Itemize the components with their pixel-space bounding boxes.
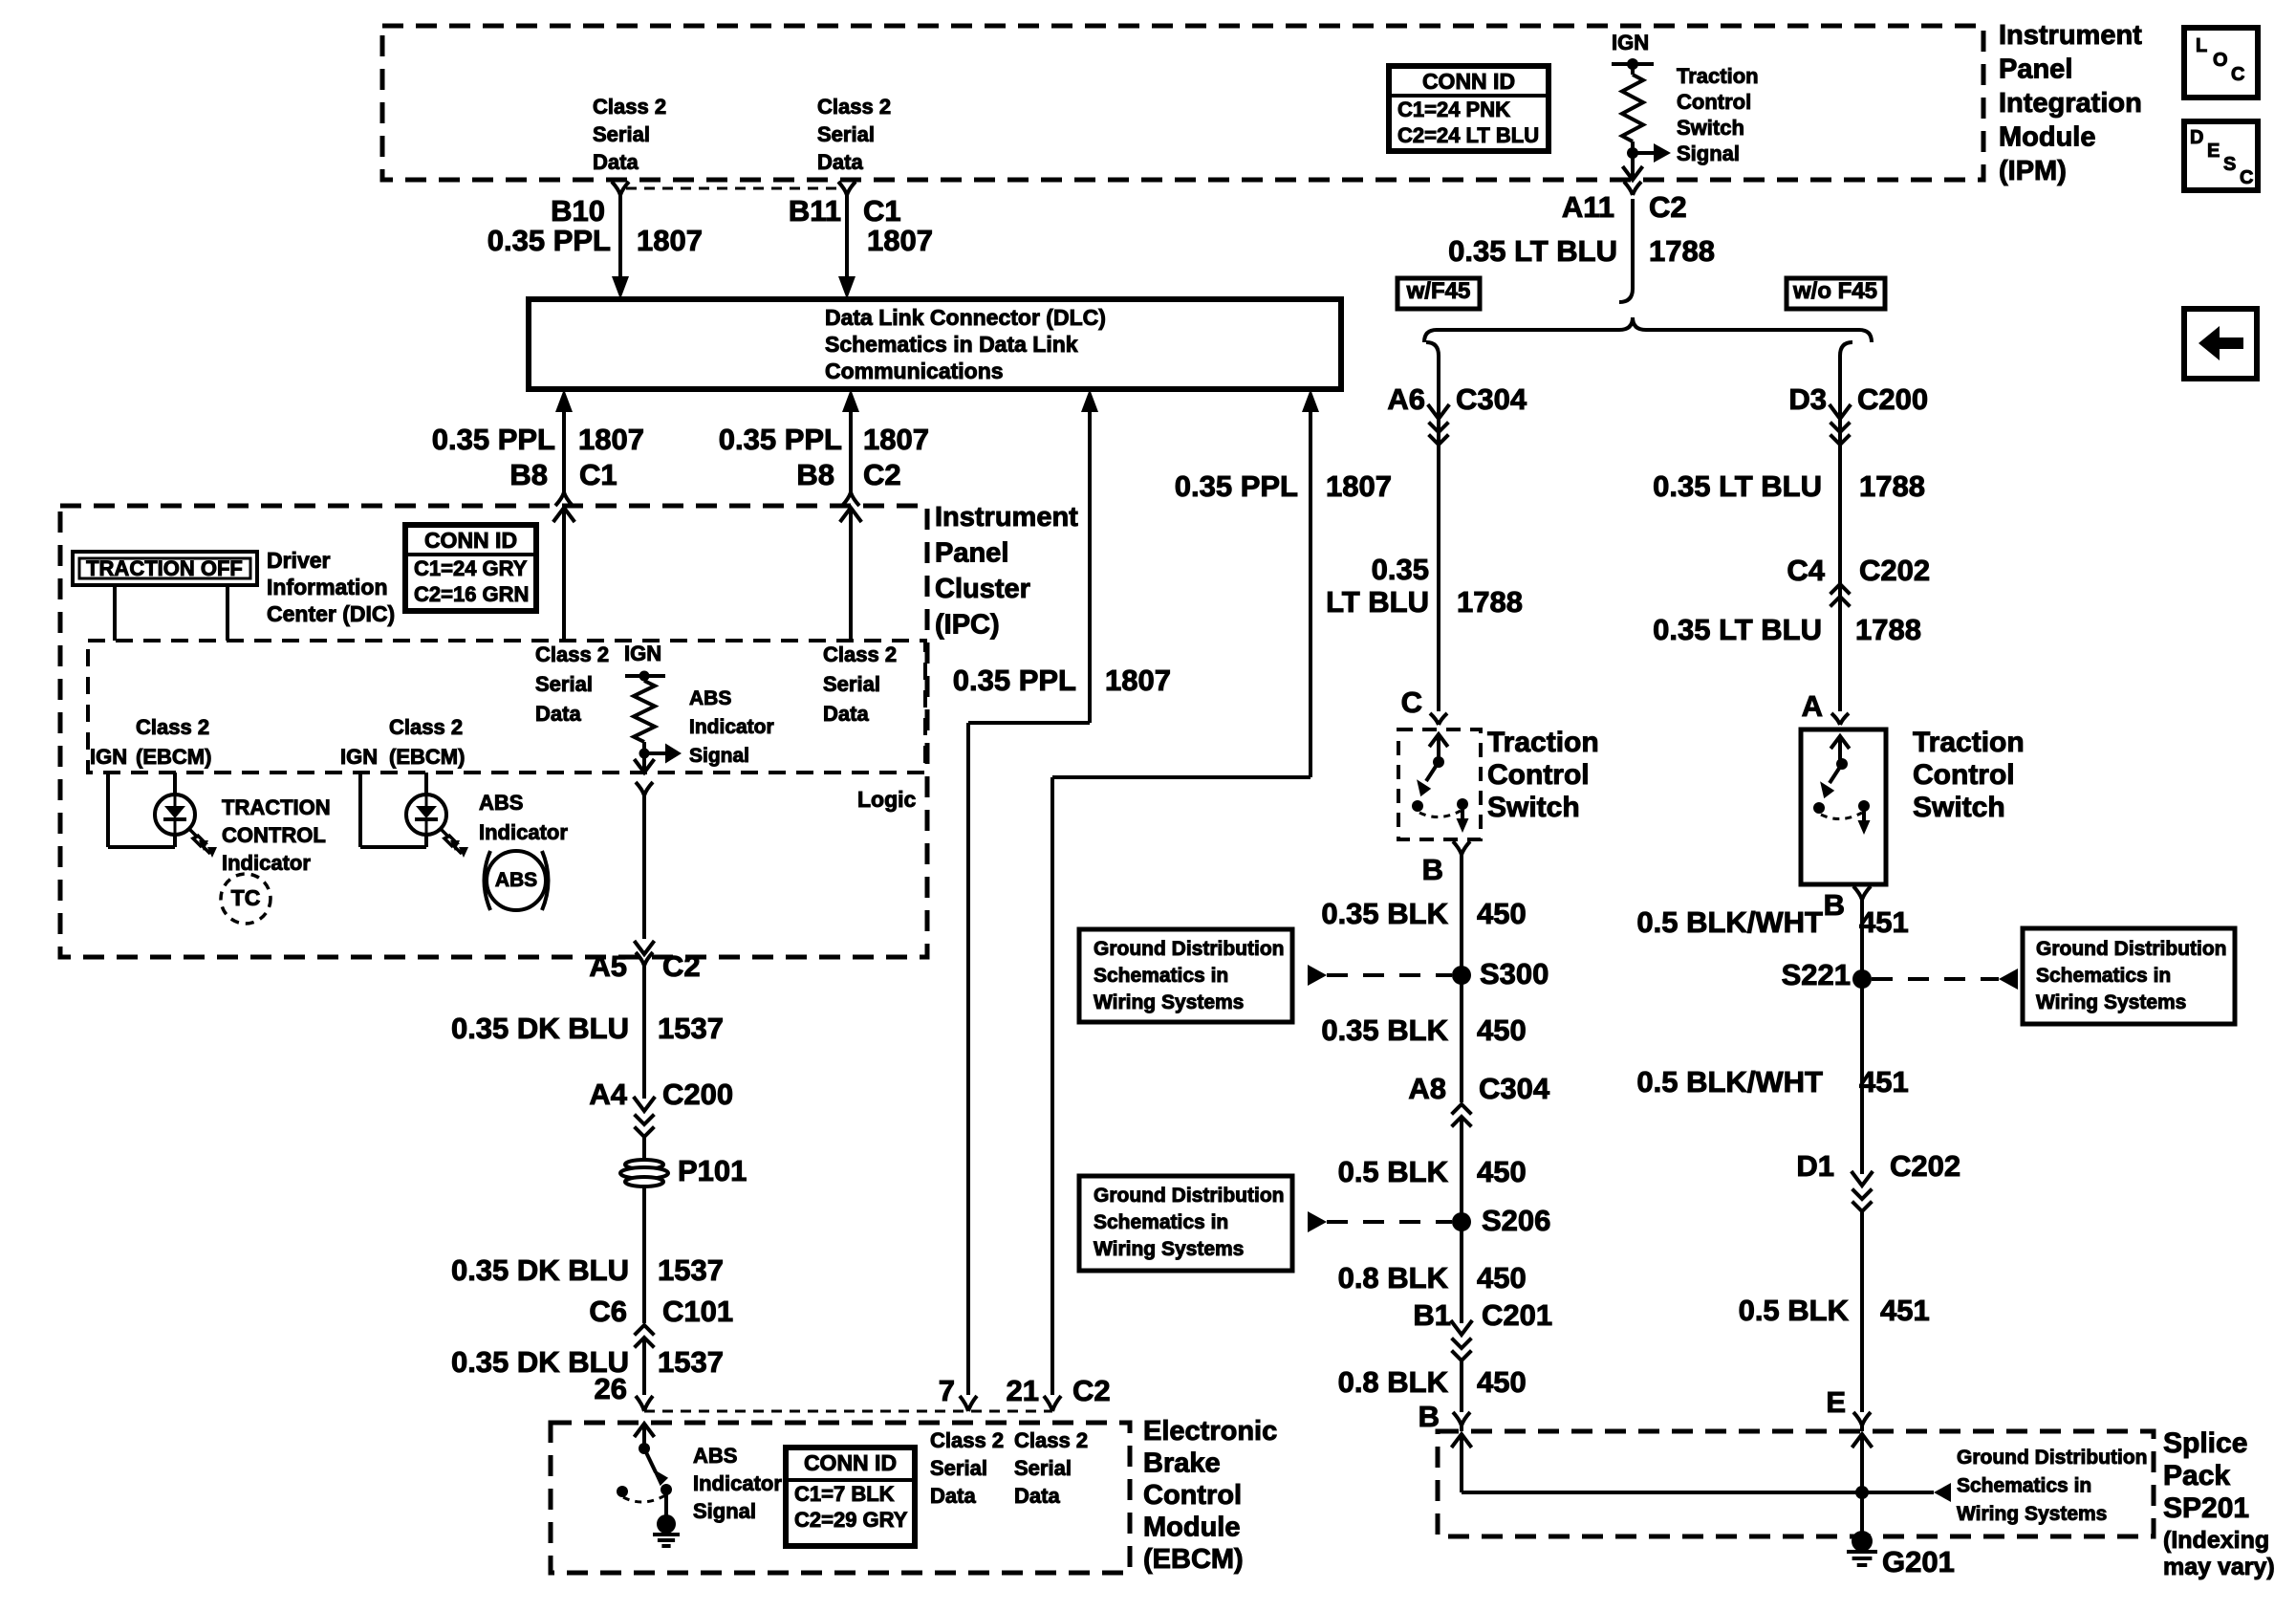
svg-text:Indicator: Indicator: [693, 1471, 782, 1495]
ground connection dot inside EBCM: [657, 1514, 676, 1534]
connector boundary dashed line between B10 and B11: [626, 187, 841, 190]
svg-text:Traction: Traction: [1913, 727, 2025, 758]
reference box Ground Distribution (S221): [2023, 928, 2235, 1024]
svg-text:Splice: Splice: [2163, 1427, 2247, 1459]
reference arrow from S221: [1999, 969, 2018, 990]
svg-text:ABS: ABS: [689, 687, 731, 709]
svg-text:C1=24 GRY: C1=24 GRY: [414, 556, 528, 580]
svg-text:E: E: [2207, 141, 2220, 162]
svg-text:S300: S300: [1480, 957, 1549, 991]
resistor traction control switch signal pull-up (IPM): [1631, 64, 1635, 75]
reference box DESC: [2184, 121, 2258, 190]
svg-text:Panel: Panel: [1999, 54, 2072, 85]
svg-text:Traction: Traction: [1487, 727, 1599, 758]
svg-text:451: 451: [1880, 1294, 1930, 1327]
svg-text:Module: Module: [1999, 122, 2096, 153]
svg-text:Data Link Connector (DLC): Data Link Connector (DLC): [825, 305, 1106, 330]
reference arrow to S300: [1308, 965, 1327, 986]
svg-text:CONN ID: CONN ID: [1422, 69, 1515, 94]
wire IGN tick (IPC): [625, 674, 665, 678]
connector fork IPM pin A11 (C2): [1624, 182, 1641, 195]
wire switch B down to S221: [1860, 900, 1864, 979]
svg-text:B: B: [1422, 853, 1443, 886]
svg-text:C1=7 BLK: C1=7 BLK: [794, 1482, 895, 1506]
svg-text:Signal: Signal: [1677, 142, 1740, 165]
svg-text:Class 2: Class 2: [389, 715, 463, 739]
svg-text:Class 2: Class 2: [593, 95, 666, 119]
svg-text:0.35 BLK: 0.35 BLK: [1321, 1013, 1448, 1047]
svg-text:P101: P101: [678, 1154, 747, 1187]
svg-text:Center (DIC): Center (DIC): [267, 601, 395, 626]
svg-text:Wiring Systems: Wiring Systems: [1957, 1503, 2107, 1525]
svg-text:(EBCM): (EBCM): [136, 745, 211, 769]
svg-text:26: 26: [595, 1372, 627, 1405]
wire ABS logic wire arrow to IPC bottom: [635, 941, 655, 954]
svg-text:Data: Data: [930, 1484, 976, 1508]
svg-text:Brake: Brake: [1143, 1448, 1221, 1479]
connector table CONN ID (IPC) C1=24 GRY / C2=16 GRN: [405, 525, 536, 611]
svg-text:A5: A5: [589, 949, 627, 983]
svg-text:1788: 1788: [1457, 585, 1523, 619]
svg-text:450: 450: [1477, 1261, 1527, 1295]
svg-text:C2: C2: [863, 458, 901, 491]
splice S300: [1452, 966, 1471, 985]
svg-text:0.35 PPL: 0.35 PPL: [719, 423, 842, 456]
svg-text:Communications: Communications: [825, 359, 1004, 383]
svg-text:C202: C202: [1890, 1149, 1960, 1183]
reference arrow SP201: [1934, 1483, 1951, 1502]
svg-text:Data: Data: [817, 150, 863, 174]
reference box LOC: [2184, 28, 2258, 98]
svg-text:C2=16 GRN: C2=16 GRN: [414, 582, 529, 606]
svg-text:1807: 1807: [637, 224, 703, 257]
connector fork EBCM pin 21: [1044, 1396, 1061, 1411]
svg-text:C2=29 GRY: C2=29 GRY: [794, 1508, 908, 1532]
variant box w/o F45: [1787, 278, 1885, 309]
svg-text:0.35 LT BLU: 0.35 LT BLU: [1653, 613, 1822, 646]
ground symbol G201: [1847, 1550, 1877, 1554]
grommet P101: [625, 1160, 663, 1169]
wire B8-C1 inside IPC: [553, 508, 575, 522]
wire SP201 left leg: [1452, 1434, 1472, 1448]
svg-text:C1: C1: [863, 194, 901, 228]
svg-text:Signal: Signal: [689, 745, 749, 767]
svg-text:E: E: [1826, 1385, 1846, 1419]
reference box Ground Distribution (S206): [1079, 1176, 1292, 1271]
switch mechanism (w/o F45): [1830, 736, 1850, 749]
svg-text:A8: A8: [1408, 1072, 1446, 1105]
wire S221 to D1: [1860, 979, 1864, 1174]
wire IGN feed tick: [1612, 62, 1654, 66]
svg-text:Driver: Driver: [267, 548, 331, 573]
svg-text:Serial: Serial: [1014, 1456, 1072, 1480]
connector hook left branch: [1426, 342, 1439, 356]
svg-text:Data: Data: [593, 150, 639, 174]
wire SP201 bus: [1462, 1491, 1934, 1494]
svg-text:1537: 1537: [658, 1345, 724, 1379]
svg-text:IGN: IGN: [1612, 31, 1649, 54]
svg-text:TC: TC: [231, 885, 261, 910]
svg-text:Serial: Serial: [823, 672, 880, 696]
svg-text:CONTROL: CONTROL: [222, 823, 326, 847]
svg-text:Data: Data: [535, 702, 581, 726]
svg-text:C: C: [2240, 167, 2253, 188]
svg-text:Serial: Serial: [593, 122, 650, 146]
svg-text:(IPM): (IPM): [1999, 156, 2067, 186]
svg-text:1537: 1537: [658, 1253, 724, 1287]
svg-text:C: C: [2231, 64, 2244, 85]
LED ABS indicator: [424, 773, 428, 795]
svg-text:Pack: Pack: [2163, 1460, 2230, 1491]
connector table CONN ID (IPM) C1=24 PNK / C2=24 LT BLU: [1389, 66, 1549, 151]
wire A5 to A4: [642, 966, 646, 1099]
svg-text:Control: Control: [1487, 759, 1590, 791]
wire B8-C2 inside IPC: [840, 508, 862, 522]
module box Instrument Panel Cluster (IPC) dashed outline: [60, 506, 927, 957]
reference box Ground Distribution (S300): [1079, 929, 1292, 1022]
connector boundary dashed line EBCM header: [644, 1410, 1052, 1413]
svg-text:B: B: [1824, 888, 1845, 922]
svg-text:Indicator: Indicator: [222, 851, 311, 875]
svg-text:Instrument: Instrument: [1999, 20, 2142, 51]
svg-text:1788: 1788: [1855, 613, 1921, 646]
svg-text:Information: Information: [267, 575, 388, 599]
connector fork switch pin A: [1831, 713, 1849, 725]
ground connection dot G201: [1852, 1531, 1873, 1552]
wire TRACTION OFF box legs: [113, 585, 117, 641]
wire C6 to EBCM pin 26: [642, 1337, 646, 1395]
svg-text:Indicator: Indicator: [689, 716, 774, 738]
switch mechanism (w/F45): [1429, 734, 1448, 747]
svg-text:Ground Distribution: Ground Distribution: [2036, 938, 2226, 960]
svg-text:C1=24 PNK: C1=24 PNK: [1397, 98, 1510, 121]
svg-text:450: 450: [1477, 1013, 1527, 1047]
svg-text:Indicator: Indicator: [479, 820, 568, 844]
svg-text:IGN: IGN: [624, 642, 661, 665]
switch ABS indicator signal driver (EBCM): [635, 1424, 655, 1437]
svg-text:Class 2: Class 2: [535, 642, 609, 666]
svg-text:C2: C2: [662, 949, 701, 983]
svg-text:D1: D1: [1796, 1149, 1834, 1183]
svg-text:S206: S206: [1482, 1204, 1550, 1237]
svg-text:C101: C101: [662, 1295, 733, 1328]
svg-text:1537: 1537: [658, 1012, 724, 1045]
wire D1 to SP201 pin E: [1860, 1211, 1864, 1412]
svg-text:0.5 BLK/WHT: 0.5 BLK/WHT: [1636, 1065, 1823, 1099]
svg-text:Switch: Switch: [1913, 792, 2005, 823]
svg-text:Wiring Systems: Wiring Systems: [1094, 991, 1244, 1013]
svg-text:A11: A11: [1562, 190, 1614, 224]
wire IPC B8-C1 to DLC (arrow up): [555, 389, 573, 412]
svg-text:A: A: [1802, 689, 1823, 723]
svg-text:D: D: [2190, 127, 2203, 148]
svg-text:B10: B10: [551, 194, 605, 228]
svg-text:Schematics in: Schematics in: [1094, 965, 1228, 987]
svg-text:Traction: Traction: [1677, 64, 1759, 88]
svg-text:Class 2: Class 2: [1014, 1428, 1088, 1452]
wire split brace (w/F45 vs w/o F45): [1424, 317, 1872, 342]
dashed reference line to S300: [1327, 973, 1452, 977]
svg-text:Cluster: Cluster: [935, 574, 1030, 604]
connector fork IPM pin C1 (B11): [838, 182, 856, 195]
svg-text:C304: C304: [1479, 1072, 1550, 1105]
connector fork IPM pin B10: [612, 182, 629, 195]
svg-text:O: O: [2213, 50, 2228, 71]
connector fork switch pin C: [1430, 713, 1447, 725]
svg-text:B1: B1: [1413, 1298, 1451, 1332]
svg-text:C4: C4: [1787, 554, 1825, 587]
symbol TC telltale dashed circle: [221, 874, 271, 924]
svg-text:Ground Distribution: Ground Distribution: [1094, 1185, 1284, 1207]
svg-text:450: 450: [1477, 1365, 1527, 1399]
svg-text:0.35 LT BLU: 0.35 LT BLU: [1448, 234, 1617, 268]
LED traction control indicator: [173, 773, 177, 795]
svg-text:0.35 PPL: 0.35 PPL: [487, 224, 611, 257]
svg-text:Schematics in Data Link: Schematics in Data Link: [825, 332, 1078, 357]
svg-text:1788: 1788: [1859, 469, 1925, 503]
svg-text:1807: 1807: [863, 423, 929, 456]
wire B1 to SP201 pin B: [1460, 1361, 1463, 1412]
wire S206 to B1: [1460, 1222, 1463, 1323]
wire right branch down to A: [1838, 356, 1842, 711]
wire ABS signal down through logic edge: [642, 753, 646, 773]
svg-text:SP201: SP201: [2163, 1492, 2249, 1524]
svg-text:C201: C201: [1482, 1298, 1552, 1332]
svg-text:0.5 BLK: 0.5 BLK: [1338, 1155, 1449, 1188]
svg-text:Switch: Switch: [1677, 116, 1744, 140]
svg-text:Instrument: Instrument: [935, 502, 1078, 533]
svg-text:B8: B8: [509, 458, 548, 491]
svg-text:B8: B8: [796, 458, 834, 491]
connector fork EBCM pin 26: [636, 1396, 653, 1411]
switch box traction control switch (w/o F45): [1801, 729, 1886, 884]
reference box back-arrow: [2184, 309, 2257, 379]
splice S206: [1452, 1212, 1471, 1231]
svg-text:LT BLU: LT BLU: [1326, 585, 1429, 619]
svg-text:0.35 LT BLU: 0.35 LT BLU: [1653, 469, 1822, 503]
svg-text:C1: C1: [579, 458, 617, 491]
svg-text:Class 2: Class 2: [817, 95, 891, 119]
svg-text:B: B: [1419, 1400, 1440, 1433]
svg-text:Serial: Serial: [930, 1456, 987, 1480]
LED emission arrows (TC): [188, 828, 202, 847]
svg-text:Wiring Systems: Wiring Systems: [2036, 991, 2186, 1013]
svg-text:0.35 DK BLU: 0.35 DK BLU: [451, 1253, 629, 1287]
svg-text:1807: 1807: [1326, 469, 1392, 503]
svg-text:w/F45: w/F45: [1406, 278, 1471, 304]
svg-text:451: 451: [1859, 905, 1909, 939]
wire SP201 right leg: [1852, 1434, 1873, 1448]
svg-text:D3: D3: [1788, 382, 1827, 416]
svg-text:1807: 1807: [1105, 664, 1171, 697]
svg-text:Switch: Switch: [1487, 792, 1580, 823]
svg-text:(IPC): (IPC): [935, 610, 1000, 641]
svg-text:Serial: Serial: [817, 122, 875, 146]
svg-text:450: 450: [1477, 1155, 1527, 1188]
wire A8 to S206: [1460, 1116, 1463, 1222]
svg-text:7: 7: [939, 1374, 955, 1407]
svg-text:C200: C200: [662, 1078, 733, 1111]
svg-text:Schematics in: Schematics in: [1094, 1211, 1228, 1233]
svg-text:C304: C304: [1456, 382, 1527, 416]
svg-text:w/o F45: w/o F45: [1792, 278, 1877, 304]
wire arrow ABS indicator signal (to right): [644, 751, 666, 755]
node junction below resistor: [1627, 147, 1638, 159]
svg-text:Electronic: Electronic: [1143, 1416, 1277, 1447]
svg-text:ABS: ABS: [495, 869, 537, 891]
ground symbol (EBCM): [653, 1533, 680, 1536]
svg-text:0.35 DK BLU: 0.35 DK BLU: [451, 1012, 629, 1045]
reference arrow to S206: [1308, 1211, 1327, 1232]
svg-text:Panel: Panel: [935, 538, 1008, 569]
svg-text:Control: Control: [1913, 759, 2015, 791]
svg-text:Schematics in: Schematics in: [1957, 1475, 2091, 1497]
connector hook right branch: [1840, 342, 1852, 356]
svg-text:0.35 PPL: 0.35 PPL: [953, 664, 1076, 697]
module box Data Link Connector (DLC): [529, 299, 1341, 389]
node SP201 junction: [1855, 1486, 1869, 1499]
wire B10 to DLC: [618, 195, 622, 279]
svg-text:451: 451: [1859, 1065, 1909, 1099]
svg-text:S: S: [2223, 154, 2236, 175]
module box IPM (Instrument Panel Integration Module) dashed outline: [382, 26, 1983, 180]
svg-text:(Indexing: (Indexing: [2163, 1527, 2269, 1554]
svg-text:C200: C200: [1857, 382, 1928, 416]
svg-text:0.35 PPL: 0.35 PPL: [1175, 469, 1298, 503]
svg-text:S221: S221: [1782, 958, 1851, 991]
svg-text:Module: Module: [1143, 1513, 1241, 1543]
svg-text:Signal: Signal: [693, 1499, 756, 1523]
connector table CONN ID (EBCM) C1=7 BLK / C2=29 GRY: [786, 1448, 915, 1546]
svg-text:Integration: Integration: [1999, 88, 2142, 119]
dashed reference line to S206: [1327, 1220, 1452, 1224]
wire IPC B8-C2 to DLC (arrow up): [842, 389, 859, 412]
wire S300 to A8: [1460, 975, 1463, 1102]
svg-text:CONN ID: CONN ID: [804, 1450, 897, 1475]
wire switch B down to S300: [1460, 855, 1463, 975]
svg-text:1788: 1788: [1649, 234, 1715, 268]
svg-text:Schematics in: Schematics in: [2036, 965, 2171, 987]
svg-text:G201: G201: [1882, 1545, 1955, 1578]
svg-text:C2: C2: [1072, 1374, 1111, 1407]
connector fork IPC pin A5 (C2): [636, 952, 653, 966]
wire SP201 to G201: [1860, 1492, 1864, 1534]
symbol ABS telltale: [487, 851, 546, 910]
svg-text:Class 2: Class 2: [930, 1428, 1004, 1452]
splice S221: [1852, 969, 1872, 989]
svg-text:Control: Control: [1143, 1480, 1242, 1511]
connector fork switch pin B (w/o F45): [1853, 886, 1871, 900]
svg-text:0.5 BLK: 0.5 BLK: [1739, 1294, 1850, 1327]
wire EBCM pin 21 class 2 serial data to DLC: [1302, 389, 1319, 412]
module box Electronic Brake Control Module (EBCM) dashed outline: [551, 1423, 1130, 1573]
svg-text:0.8 BLK: 0.8 BLK: [1338, 1365, 1449, 1399]
wire B11 to DLC: [845, 195, 849, 279]
wire P101 to C6: [642, 1187, 646, 1323]
svg-text:Serial: Serial: [535, 672, 593, 696]
svg-text:450: 450: [1477, 897, 1527, 930]
svg-text:may vary): may vary): [2163, 1554, 2275, 1580]
logic region dashed box inside IPC: [88, 641, 925, 773]
connector fork SP201 pin E: [1853, 1412, 1871, 1426]
svg-text:Data: Data: [823, 702, 869, 726]
svg-text:(EBCM): (EBCM): [389, 745, 465, 769]
svg-text:C202: C202: [1859, 554, 1930, 587]
svg-text:Ground Distribution: Ground Distribution: [1957, 1447, 2147, 1469]
svg-text:A6: A6: [1387, 382, 1425, 416]
svg-text:1807: 1807: [867, 224, 933, 257]
svg-text:Data: Data: [1014, 1484, 1060, 1508]
svg-text:TRACTION: TRACTION: [222, 795, 331, 819]
svg-text:0.35: 0.35: [1372, 553, 1429, 586]
svg-text:C6: C6: [589, 1295, 627, 1328]
svg-text:0.35 BLK: 0.35 BLK: [1321, 897, 1448, 930]
LED emission arrows (ABS): [440, 828, 453, 847]
svg-text:C2: C2: [1649, 190, 1687, 224]
svg-text:IGN: IGN: [90, 745, 127, 769]
dashed reference line from S221: [1872, 977, 1999, 981]
svg-text:0.5 BLK/WHT: 0.5 BLK/WHT: [1636, 905, 1823, 939]
svg-text:TRACTION OFF: TRACTION OFF: [86, 556, 243, 580]
indicator box TRACTION OFF (DIC display): [73, 552, 257, 585]
svg-text:B11: B11: [789, 194, 841, 228]
wire left branch down to C: [1437, 356, 1440, 711]
svg-text:CONN ID: CONN ID: [424, 528, 517, 553]
module box Splice Pack SP201 dashed outline: [1438, 1431, 2154, 1536]
variant box w/F45: [1397, 278, 1480, 309]
svg-text:C2=24 LT BLU: C2=24 LT BLU: [1397, 123, 1539, 147]
connector fork EBCM pin 7: [960, 1396, 977, 1411]
switch box traction control switch (w/F45) dashed: [1398, 729, 1481, 839]
wire A11 down to split: [1631, 199, 1635, 289]
svg-text:Control: Control: [1677, 90, 1751, 114]
svg-text:(EBCM): (EBCM): [1143, 1544, 1244, 1575]
wire arrow traction control switch signal (to right): [1633, 151, 1656, 155]
svg-text:ABS: ABS: [479, 791, 523, 815]
svg-text:Class 2: Class 2: [823, 642, 897, 666]
svg-text:IGN: IGN: [340, 745, 378, 769]
resistor ABS indicator signal pull-up (IPC): [642, 676, 646, 681]
svg-text:0.35 PPL: 0.35 PPL: [432, 423, 555, 456]
wire resistor output down + arrow at IPM edge: [1631, 153, 1635, 180]
node junction below IPC resistor: [639, 749, 650, 759]
svg-text:1807: 1807: [578, 423, 644, 456]
wire EBCM pin 7 class 2 serial data to DLC: [1081, 389, 1098, 412]
connector hook on ABS logic wire: [636, 782, 653, 795]
svg-text:21: 21: [1007, 1374, 1039, 1407]
svg-text:A4: A4: [589, 1078, 627, 1111]
wire A4 to P101: [642, 1138, 646, 1159]
connector fork switch pin B (w/F45): [1453, 841, 1470, 855]
svg-text:Class 2: Class 2: [136, 715, 209, 739]
svg-text:ABS: ABS: [693, 1444, 737, 1468]
svg-text:Logic: Logic: [857, 787, 917, 812]
connector fork SP201 pin B: [1453, 1412, 1470, 1426]
svg-text:Wiring Systems: Wiring Systems: [1094, 1238, 1244, 1260]
svg-text:L: L: [2196, 35, 2207, 56]
svg-text:0.8 BLK: 0.8 BLK: [1338, 1261, 1449, 1295]
svg-text:Ground Distribution: Ground Distribution: [1094, 938, 1284, 960]
svg-text:C: C: [1401, 686, 1422, 719]
